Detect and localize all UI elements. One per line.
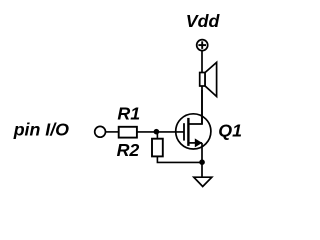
junction node at gate [154,129,160,135]
svg-text:Q1: Q1 [218,121,242,141]
wire to ground [201,162,203,177]
transistor Q1 (N-MOSFET) [176,90,211,162]
wire R1 to Q1 gate [137,131,184,133]
svg-text:pin I/O: pin I/O [13,120,69,140]
wire junction to R2 top [156,132,158,139]
speaker LS [200,62,217,96]
resistor R2 [152,139,163,157]
ground [194,177,212,186]
svg-text:Vdd: Vdd [186,11,221,31]
resistor R1 [119,127,137,138]
terminal pin I/O (open circle) [95,126,106,137]
svg-text:R2: R2 [117,140,140,160]
svg-text:R1: R1 [117,104,140,124]
power Vdd symbol (circle with plus) [197,40,208,51]
wire terminal to R1 [106,131,119,133]
wire speaker to Q1 drain [201,86,203,124]
wire Vdd to speaker [201,51,203,73]
wire R2 bottom to source node [157,156,202,162]
junction node at source/ground [199,159,205,165]
